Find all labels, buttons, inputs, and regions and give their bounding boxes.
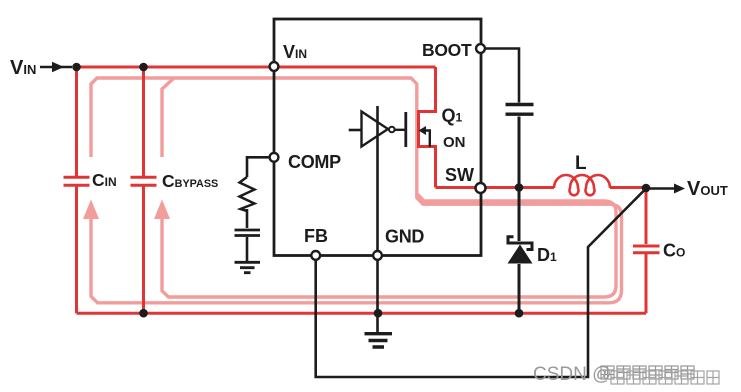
wire GND pin down to ground symbol: [376, 260, 379, 332]
svg-text:CIN: CIN: [92, 170, 117, 190]
bootstrap capacitor plates: [506, 105, 534, 115]
IC body U1: [274, 19, 481, 256]
wire capacitor to RC ground: [246, 237, 249, 261]
pin FB circle: [311, 251, 320, 260]
arrow head VIN input: [52, 62, 64, 72]
red wire: Q1 drain/source bracket: [419, 67, 436, 188]
wire driver bubble to gate: [395, 129, 405, 131]
wire driver input stub: [349, 129, 362, 132]
transistor Q1 gate bar: [404, 112, 407, 147]
red wire: VOUT node down to Co top: [645, 188, 648, 245]
junction node VIN/CBYPASS: [139, 63, 148, 72]
FB feedback trace: [316, 189, 646, 378]
wire VIN input arrow shaft: [40, 66, 72, 69]
wire resistor to capacitor: [246, 209, 249, 228]
pin SW circle: [476, 183, 486, 193]
wire BOOT to bootstrap cap: [485, 49, 519, 103]
svg-text:CSDN @: CSDN @: [533, 364, 611, 385]
black wires: [40, 49, 676, 333]
wire bootstrap cap to SW node and D1: [518, 117, 521, 242]
inductor L: [554, 175, 610, 195]
svg-text:GND: GND: [385, 227, 424, 247]
svg-text:SW: SW: [445, 165, 474, 185]
red wire: inductor to VOUT node: [610, 186, 646, 189]
svg-text:ON: ON: [443, 134, 466, 151]
pin BOOT circle: [476, 44, 485, 53]
svg-text:COMP: COMP: [288, 152, 341, 172]
svg-text:CO: CO: [663, 241, 685, 261]
wire internal rail through driver to GND pin: [376, 106, 379, 252]
pin VIN circle: [270, 62, 279, 71]
svg-text:CBYPASS: CBYPASS: [162, 171, 218, 191]
ground (main, below GND pin): [365, 334, 393, 347]
svg-text:VIN: VIN: [283, 42, 307, 62]
svg-text:FB: FB: [304, 226, 328, 246]
junction node VOUT: [642, 184, 651, 193]
svg-text:Q1: Q1: [442, 106, 463, 126]
diode D1 (schottky): [508, 237, 532, 250]
capacitor (COMP compensation) plates: [235, 230, 261, 236]
watermark CSDN layer 2: [611, 371, 719, 384]
capacitor Co plates: [633, 246, 660, 253]
svg-text:BOOT: BOOT: [422, 40, 472, 60]
driver buffer inside IC: [362, 112, 389, 147]
driver output bubble: [389, 127, 395, 133]
svg-text:VIN: VIN: [10, 57, 36, 79]
pink current loop through CBYPASS (inner return path): [162, 79, 616, 298]
pink current loop through CIN (outer return path): [91, 78, 622, 303]
red wire: bottom ground rail: [77, 312, 647, 315]
capacitor CIN plates: [64, 177, 660, 252]
junction node VIN/CIN: [72, 63, 81, 72]
red wire: Co bottom to ground rail: [645, 254, 648, 313]
svg-text:D1: D1: [537, 245, 557, 265]
svg-text:L: L: [575, 153, 587, 174]
capacitor CBYPASS plates: [131, 177, 157, 185]
wire VOUT arrow shaft: [650, 187, 676, 190]
pink arrow head CBYPASS loop: [154, 200, 170, 220]
red wire: CIN branch vertical: [75, 67, 78, 176]
pin GND circle: [373, 251, 382, 260]
pin COMP circle: [270, 153, 279, 162]
red wire: VIN top rail: [77, 67, 647, 313]
svg-text:VOUT: VOUT: [687, 178, 728, 200]
junction node SW/D1/boot cap: [515, 183, 524, 192]
pink arrow head CIN loop: [83, 200, 99, 220]
wire COMP pin to resistor: [247, 157, 270, 177]
junction node D1 bottom: [515, 309, 524, 318]
junction node GND rail: [374, 309, 383, 318]
ground (COMP RC): [235, 262, 261, 272]
red wire: SW to inductor: [436, 186, 555, 189]
transistor Q1 body arrow: [424, 131, 430, 147]
wire D1 to ground rail: [518, 264, 521, 313]
watermark CSDN layer 1: [533, 364, 694, 385]
resistor (COMP compensation): [240, 177, 255, 211]
red wire: CBYPASS branch vertical: [142, 67, 145, 176]
junction node CBYPASS bottom: [139, 309, 148, 318]
arrow head VOUT output: [674, 184, 685, 194]
